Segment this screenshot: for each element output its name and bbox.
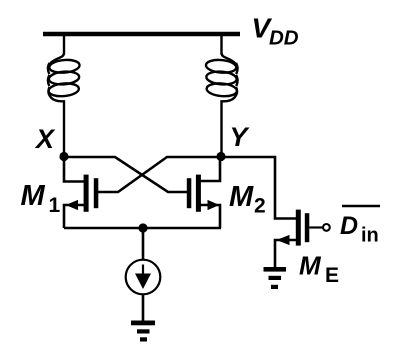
svg-text:1: 1 (49, 194, 61, 217)
wire Y down to M2 drain (199, 156, 220, 181)
svg-text:in: in (361, 225, 379, 247)
svg-text:D: D (340, 212, 358, 240)
M2 gate bar (187, 178, 192, 208)
tail node junction dot (138, 223, 147, 232)
wire Y to ME drain (221, 157, 298, 219)
VDD rail (43, 32, 240, 37)
M1 gate bar (94, 178, 99, 208)
svg-text:Y: Y (230, 122, 251, 152)
M2 channel bar (196, 175, 201, 212)
ground (ME) (264, 267, 287, 289)
node Y junction dot (216, 152, 225, 161)
svg-text:2: 2 (254, 195, 266, 218)
wire X down to M1 drain (64, 156, 86, 182)
svg-text:X: X (34, 124, 56, 154)
ME source lead with arrow (275, 240, 298, 268)
VDD label (252, 13, 299, 50)
M1 channel bar (84, 175, 89, 212)
svg-text:M: M (299, 251, 322, 281)
M2 label (229, 181, 266, 218)
ME gate lead (309, 226, 322, 228)
wire Y to M1 gate (cross-coupling) (98, 157, 222, 192)
node X junction dot (59, 152, 68, 161)
ground (tail) (131, 321, 155, 342)
transistor ME (275, 210, 330, 268)
svg-text:DD: DD (269, 27, 299, 50)
M1 label (21, 180, 61, 217)
inductor L2 (right load coil) (205, 36, 237, 153)
svg-text:E: E (325, 264, 339, 287)
wire X to M2 gate (cross-coupling) (64, 157, 188, 192)
M1 source lead with arrow (64, 205, 86, 228)
inductor L1 (left load coil) (48, 36, 80, 153)
wire current source to ground (142, 294, 145, 322)
transistor M1 (64, 156, 98, 228)
common source rail (64, 227, 221, 230)
wire down to current source (142, 228, 145, 260)
Din input label with overline (340, 206, 380, 247)
tail current source (126, 228, 161, 322)
M2 source lead with arrow (199, 205, 220, 228)
ME channel bar (296, 210, 301, 246)
input terminal bubble (323, 224, 330, 231)
ME label (299, 251, 339, 288)
transistor M2 (187, 156, 220, 228)
ME gate bar (305, 213, 310, 242)
svg-text:M: M (229, 181, 254, 213)
svg-text:M: M (21, 180, 46, 212)
